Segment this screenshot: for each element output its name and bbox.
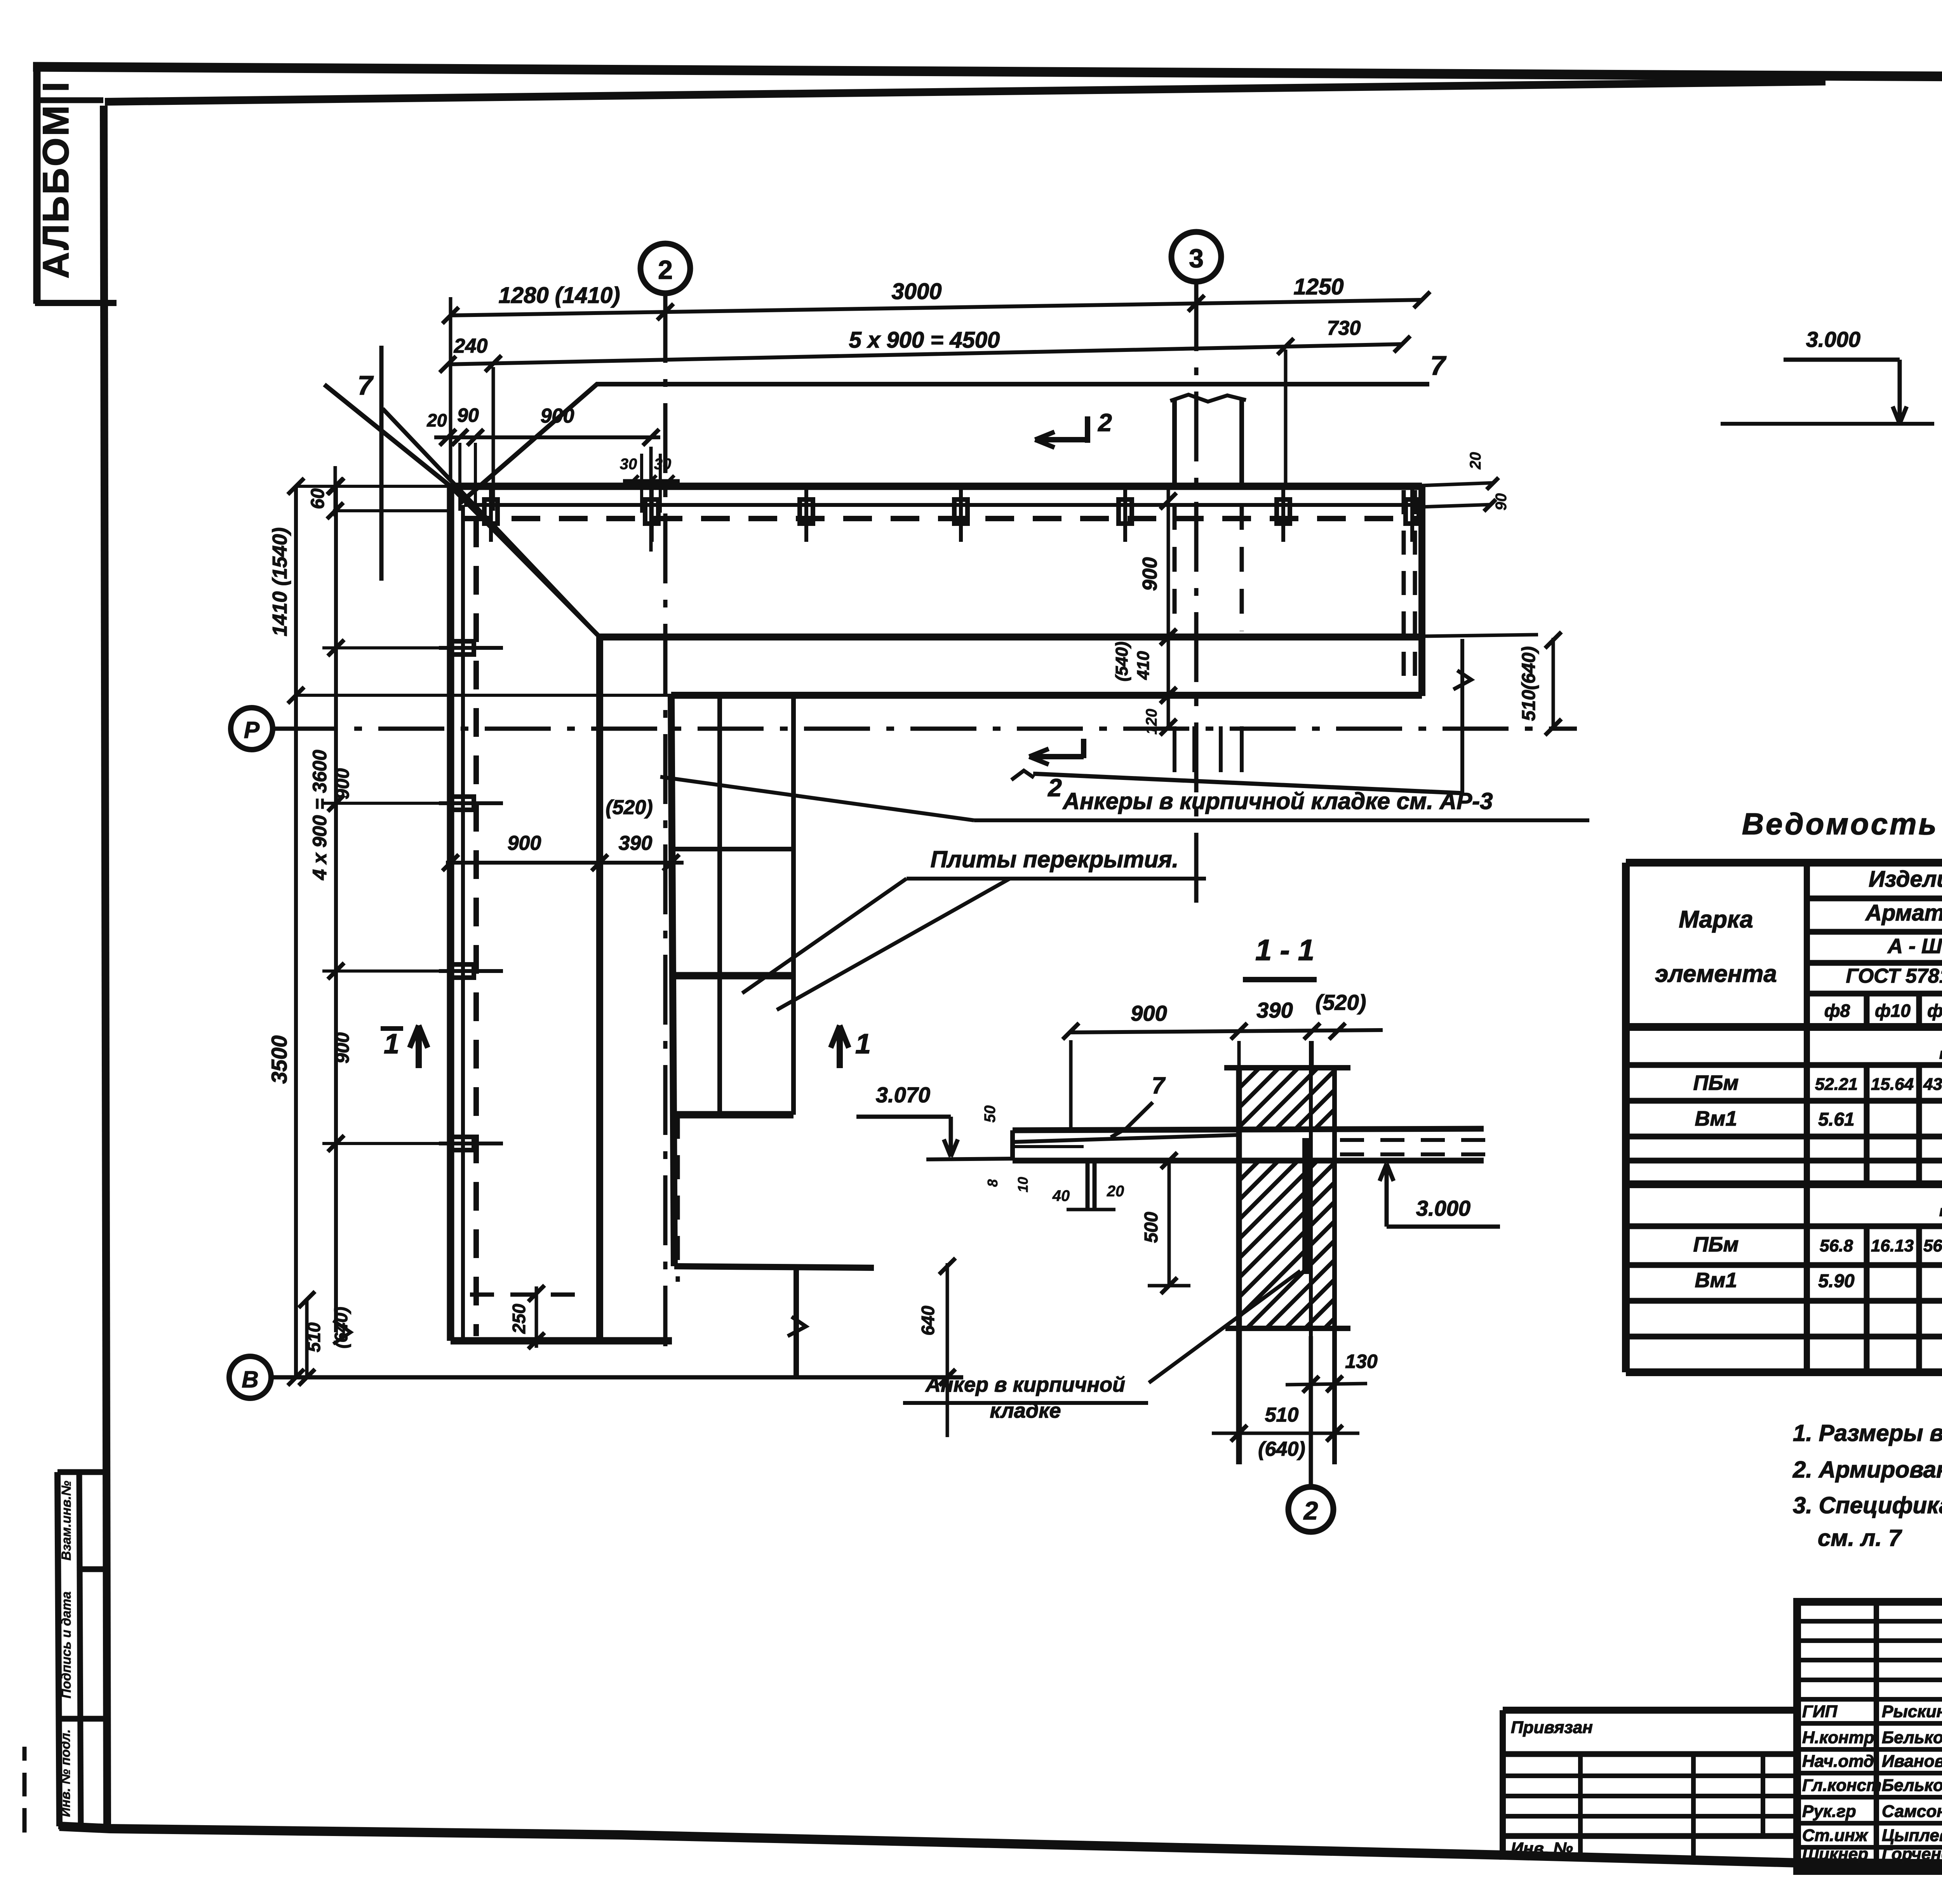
svg-text:Инв. №: Инв. № [1511,1839,1573,1858]
svg-text:(520): (520) [1316,990,1366,1015]
svg-text:10: 10 [1015,1177,1031,1192]
svg-text:Анкеры в кирпичной кладке см.: Анкеры в кирпичной кладке см. АР-3 [1062,788,1493,814]
svg-text:60: 60 [308,488,328,509]
svg-text:Ст.инж: Ст.инж [1802,1826,1869,1845]
svg-text:ГОСТ 5781- 82: ГОСТ 5781- 82 [1846,965,1942,987]
svg-text:2: 2 [658,255,673,285]
svg-text:Нач.отд.: Нач.отд. [1802,1752,1879,1771]
svg-text:240: 240 [454,335,488,357]
svg-text:Марка: Марка [1679,906,1753,933]
svg-text:элемента: элемента [1655,961,1777,987]
svg-text:7: 7 [1152,1072,1166,1098]
svg-text:500: 500 [1141,1212,1162,1243]
svg-text:16.13: 16.13 [1871,1236,1914,1255]
svg-text:3500: 3500 [267,1036,291,1084]
svg-text:Рыскин: Рыскин [1882,1702,1942,1721]
svg-text:900: 900 [332,768,353,799]
svg-text:50: 50 [981,1105,999,1123]
svg-text:20: 20 [1107,1183,1124,1200]
svg-text:Плиты перекрытия.: Плиты перекрытия. [931,846,1179,872]
svg-text:2: 2 [1098,409,1112,437]
svg-text:40: 40 [1052,1187,1070,1204]
svg-text:1. Размеры в скобках для те: 1. Размеры в скобках для температуры -40… [1793,1420,1942,1446]
svg-text:640: 640 [918,1305,938,1335]
svg-text:5 x 900 = 4500: 5 x 900 = 4500 [849,327,1000,353]
svg-text:Вм1: Вм1 [1695,1107,1737,1130]
svg-text:1410 (1540): 1410 (1540) [269,527,291,636]
svg-text:Горчененко: Горчененко [1882,1845,1942,1864]
svg-text:А - Ш: А - Ш [1887,935,1942,958]
svg-text:2: 2 [1303,1496,1318,1525]
svg-text:900: 900 [1131,1001,1167,1025]
svg-text:900: 900 [1139,557,1161,591]
svg-text:Шикнер: Шикнер [1802,1845,1868,1864]
svg-text:ПБм: ПБм [1693,1233,1738,1256]
svg-text:Н.контр: Н.контр [1802,1728,1874,1747]
svg-text:730: 730 [1327,317,1361,339]
svg-text:56.8: 56.8 [1820,1236,1853,1255]
svg-text:8: 8 [985,1179,1001,1187]
svg-text:Изделия арматурные: Изделия арматурные [1869,867,1942,892]
svg-text:(640): (640) [1258,1438,1305,1460]
svg-text:см. л. 7: см. л. 7 [1818,1525,1902,1551]
svg-text:5.90: 5.90 [1818,1271,1855,1291]
svg-text:90: 90 [457,404,479,426]
svg-text:Гл.конст: Гл.конст [1802,1776,1881,1795]
svg-text:4 x 900 = 3600: 4 x 900 = 3600 [309,750,331,880]
svg-text:390: 390 [1256,998,1293,1022]
svg-text:510(640): 510(640) [1519,646,1539,721]
svg-text:Привязан: Привязан [1511,1718,1593,1737]
svg-text:Бельковский: Бельковский [1882,1728,1942,1747]
svg-text:ПБм: ПБм [1693,1071,1738,1095]
svg-text:900: 900 [332,1032,353,1063]
svg-text:1280 (1410): 1280 (1410) [499,283,620,308]
svg-text:510: 510 [304,1322,324,1352]
svg-text:90: 90 [1493,493,1510,511]
svg-text:390: 390 [619,832,653,855]
svg-text:410: 410 [1134,651,1153,680]
svg-text:250: 250 [509,1304,529,1334]
svg-text:3.000: 3.000 [1806,327,1860,352]
svg-text:Самсонова: Самсонова [1882,1802,1942,1821]
svg-text:30: 30 [654,456,672,473]
svg-text:1: 1 [855,1029,871,1060]
svg-text:3.000: 3.000 [1416,1196,1470,1220]
svg-text:2. Армирование ПБм и водосл: 2. Армирование ПБм и водослив Вм1 см. л.… [1792,1457,1942,1483]
svg-text:(520): (520) [606,796,653,819]
svg-text:Бельковские: Бельковские [1882,1776,1942,1795]
svg-text:5.61: 5.61 [1818,1109,1854,1130]
svg-text:Цыплева: Цыплева [1882,1826,1942,1845]
svg-text:20: 20 [426,410,447,430]
svg-text:Р: Р [244,717,260,743]
svg-text:7: 7 [1430,350,1447,381]
svg-text:Анкер в кирпичной: Анкер в кирпичной [925,1373,1125,1396]
svg-text:2: 2 [1048,774,1062,802]
svg-text:120: 120 [1143,709,1160,735]
svg-text:510: 510 [1265,1404,1299,1426]
svg-text:Ведомость расхода стали на: Ведомость расхода стали на элемент, кг [1742,807,1942,841]
svg-text:Иванов: Иванов [1882,1752,1942,1771]
svg-text:(540): (540) [1112,642,1131,682]
svg-text:1250: 1250 [1293,274,1343,299]
svg-text:1: 1 [384,1029,399,1060]
svg-text:15.64: 15.64 [1871,1075,1914,1094]
svg-text:Арматура класса: Арматура класса [1865,900,1942,926]
svg-text:ГИП: ГИП [1802,1702,1838,1721]
svg-text:Рук.гр: Рук.гр [1802,1802,1856,1821]
svg-text:20: 20 [1467,452,1484,470]
svg-text:3: 3 [1189,244,1204,273]
svg-text:7: 7 [358,370,374,400]
svg-text:30: 30 [620,456,637,473]
svg-text:В: В [242,1366,258,1392]
svg-text:52.21: 52.21 [1815,1075,1858,1094]
svg-text:3.070: 3.070 [876,1083,930,1107]
svg-text:Подпись и дата: Подпись и дата [59,1591,74,1699]
svg-text:ф10: ф10 [1875,1001,1911,1021]
svg-text:3. Спецификацию балконной п: 3. Спецификацию балконной плиты ПБм [1793,1492,1942,1518]
svg-text:АЛЬБОМ I: АЛЬБОМ I [35,80,77,279]
svg-text:3000: 3000 [891,279,941,304]
svg-text:Инв. № подл.: Инв. № подл. [58,1729,73,1817]
svg-text:900: 900 [541,405,574,427]
svg-text:1 - 1: 1 - 1 [1255,934,1314,967]
svg-text:ф8: ф8 [1824,1001,1850,1021]
svg-text:43.51: 43.51 [1923,1075,1942,1094]
svg-text:130: 130 [1345,1351,1378,1372]
svg-text:900: 900 [508,832,541,855]
svg-text:56.09: 56.09 [1923,1236,1942,1255]
svg-text:ф14: ф14 [1927,1001,1942,1021]
svg-text:Взам.инв.№: Взам.инв.№ [59,1481,74,1561]
svg-text:Вм1: Вм1 [1695,1269,1737,1292]
